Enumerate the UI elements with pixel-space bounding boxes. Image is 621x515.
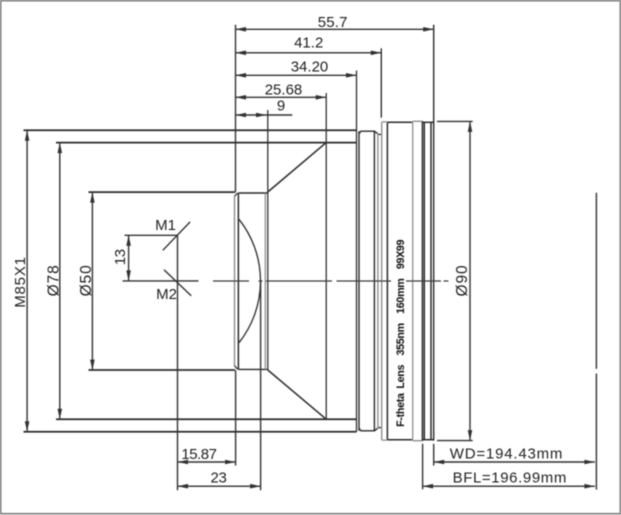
dimension 55.7 xyxy=(236,28,434,30)
outline: phi50 bottom shelf xyxy=(89,369,236,371)
svg-text:M85X1: M85X1 xyxy=(12,256,29,308)
svg-text:13: 13 xyxy=(112,249,129,265)
svg-text:Ø78: Ø78 xyxy=(45,264,62,296)
outline: phi78 bottom edge + extension line xyxy=(56,418,357,420)
outline: thread ring right edge x=374.4 xyxy=(373,131,375,431)
outline: main barrel chamfer edge x=387.4 xyxy=(386,122,388,439)
outline: step face x=356.5 with 34.20 extension xyxy=(356,71,358,432)
outline: rear end face x=433.7 with 55.7/WD extension xyxy=(433,25,435,441)
dimension phi50 xyxy=(91,192,93,370)
dimension 15.87 xyxy=(178,461,236,463)
svg-text:Ø50: Ø50 xyxy=(78,264,95,296)
extension line x=235.5 left datum xyxy=(235,25,237,192)
dimension 9 with leader xyxy=(236,114,293,116)
M2 leader horizontal / centerline segment xyxy=(123,280,199,282)
svg-text:M1: M1 xyxy=(155,217,176,234)
lens front face x=238.4 xyxy=(237,193,239,369)
outline: barrel ring edge x=424.3 xyxy=(423,122,425,439)
outline: phi78 top edge + extension line xyxy=(56,142,357,144)
svg-text:55.7: 55.7 xyxy=(318,14,348,31)
focal plane line xyxy=(595,193,597,369)
svg-text:BFL=196.99mm: BFL=196.99mm xyxy=(453,470,567,487)
svg-text:41.2: 41.2 xyxy=(294,35,323,52)
outline: M85 barrel bottom edge + extension line xyxy=(24,431,357,433)
outline: main barrel left face x=381.7 light xyxy=(381,122,383,440)
extension from lens vertex x=260.6 xyxy=(260,281,262,490)
outline: groove edge x=377.9 light xyxy=(377,134,379,429)
svg-text:F-theta Lens 355nm 160mm 99: F-theta Lens 355nm 160mm 99X99 xyxy=(395,239,407,426)
M1/M2 vertical reference line x=177.5 xyxy=(177,235,179,490)
outline: inner shelf bottom behind lens xyxy=(238,368,267,370)
outline: cone base edge circle x=326 with 25.68 extension xyxy=(325,93,327,419)
svg-text:25.68: 25.68 xyxy=(265,81,303,98)
lens rear retainer edge x=265.3 light xyxy=(264,194,266,370)
outline: cone upper edge xyxy=(268,143,326,192)
outline: M85 barrel top edge + extension line xyxy=(24,129,357,131)
svg-text:9: 9 xyxy=(277,98,285,115)
outline: barrel groove edge x=412.7 light xyxy=(412,121,414,440)
lens retainer front edge x=234.5 light with chamfers xyxy=(234,196,236,365)
dimension M85X1 xyxy=(26,130,28,431)
dimension 34.20 xyxy=(236,74,357,76)
lens curved surface arc xyxy=(239,219,260,342)
outline: main barrel top edge segments xyxy=(382,121,388,123)
outline: thread ring bottom edge with chamfers xyxy=(359,428,382,431)
extension x=235.6 below body xyxy=(235,370,237,465)
outline: thread relief groove x=359 xyxy=(358,131,360,431)
dimension 41.2 xyxy=(236,52,382,54)
dimension phi78 xyxy=(59,143,61,420)
svg-text:M2: M2 xyxy=(156,286,177,303)
dimension WD=194.43mm xyxy=(434,461,595,463)
svg-text:Ø90: Ø90 xyxy=(454,265,471,297)
centerline dashes xyxy=(213,280,249,282)
outline: cone lower edge xyxy=(268,370,326,419)
dimension BFL=196.99mm xyxy=(423,485,595,487)
svg-text:WD=194.43mm: WD=194.43mm xyxy=(450,446,563,463)
outline: barrel ring edge x=431.0 xyxy=(430,122,432,439)
svg-text:34.20: 34.20 xyxy=(291,59,329,76)
svg-text:15.87: 15.87 xyxy=(181,446,216,463)
outline: main barrel bottom edge segments xyxy=(382,439,388,441)
lens rear edge x=267.8 with 9-dim extension xyxy=(267,110,269,370)
svg-text:23: 23 xyxy=(211,470,227,487)
dimension phi90 xyxy=(437,120,473,122)
dimension 25.68 xyxy=(236,96,327,98)
dimension 23 xyxy=(178,485,261,487)
outline: barrel ring edge x=422.4 xyxy=(421,121,423,440)
dimension 13 xyxy=(128,235,130,281)
outline: phi50 top shelf xyxy=(89,191,236,193)
M1 leader horizontal / 13-dim top extension xyxy=(125,234,178,236)
outline: thread ring top edge with chamfers xyxy=(359,131,382,134)
outline: inner shelf top behind lens xyxy=(238,192,267,194)
